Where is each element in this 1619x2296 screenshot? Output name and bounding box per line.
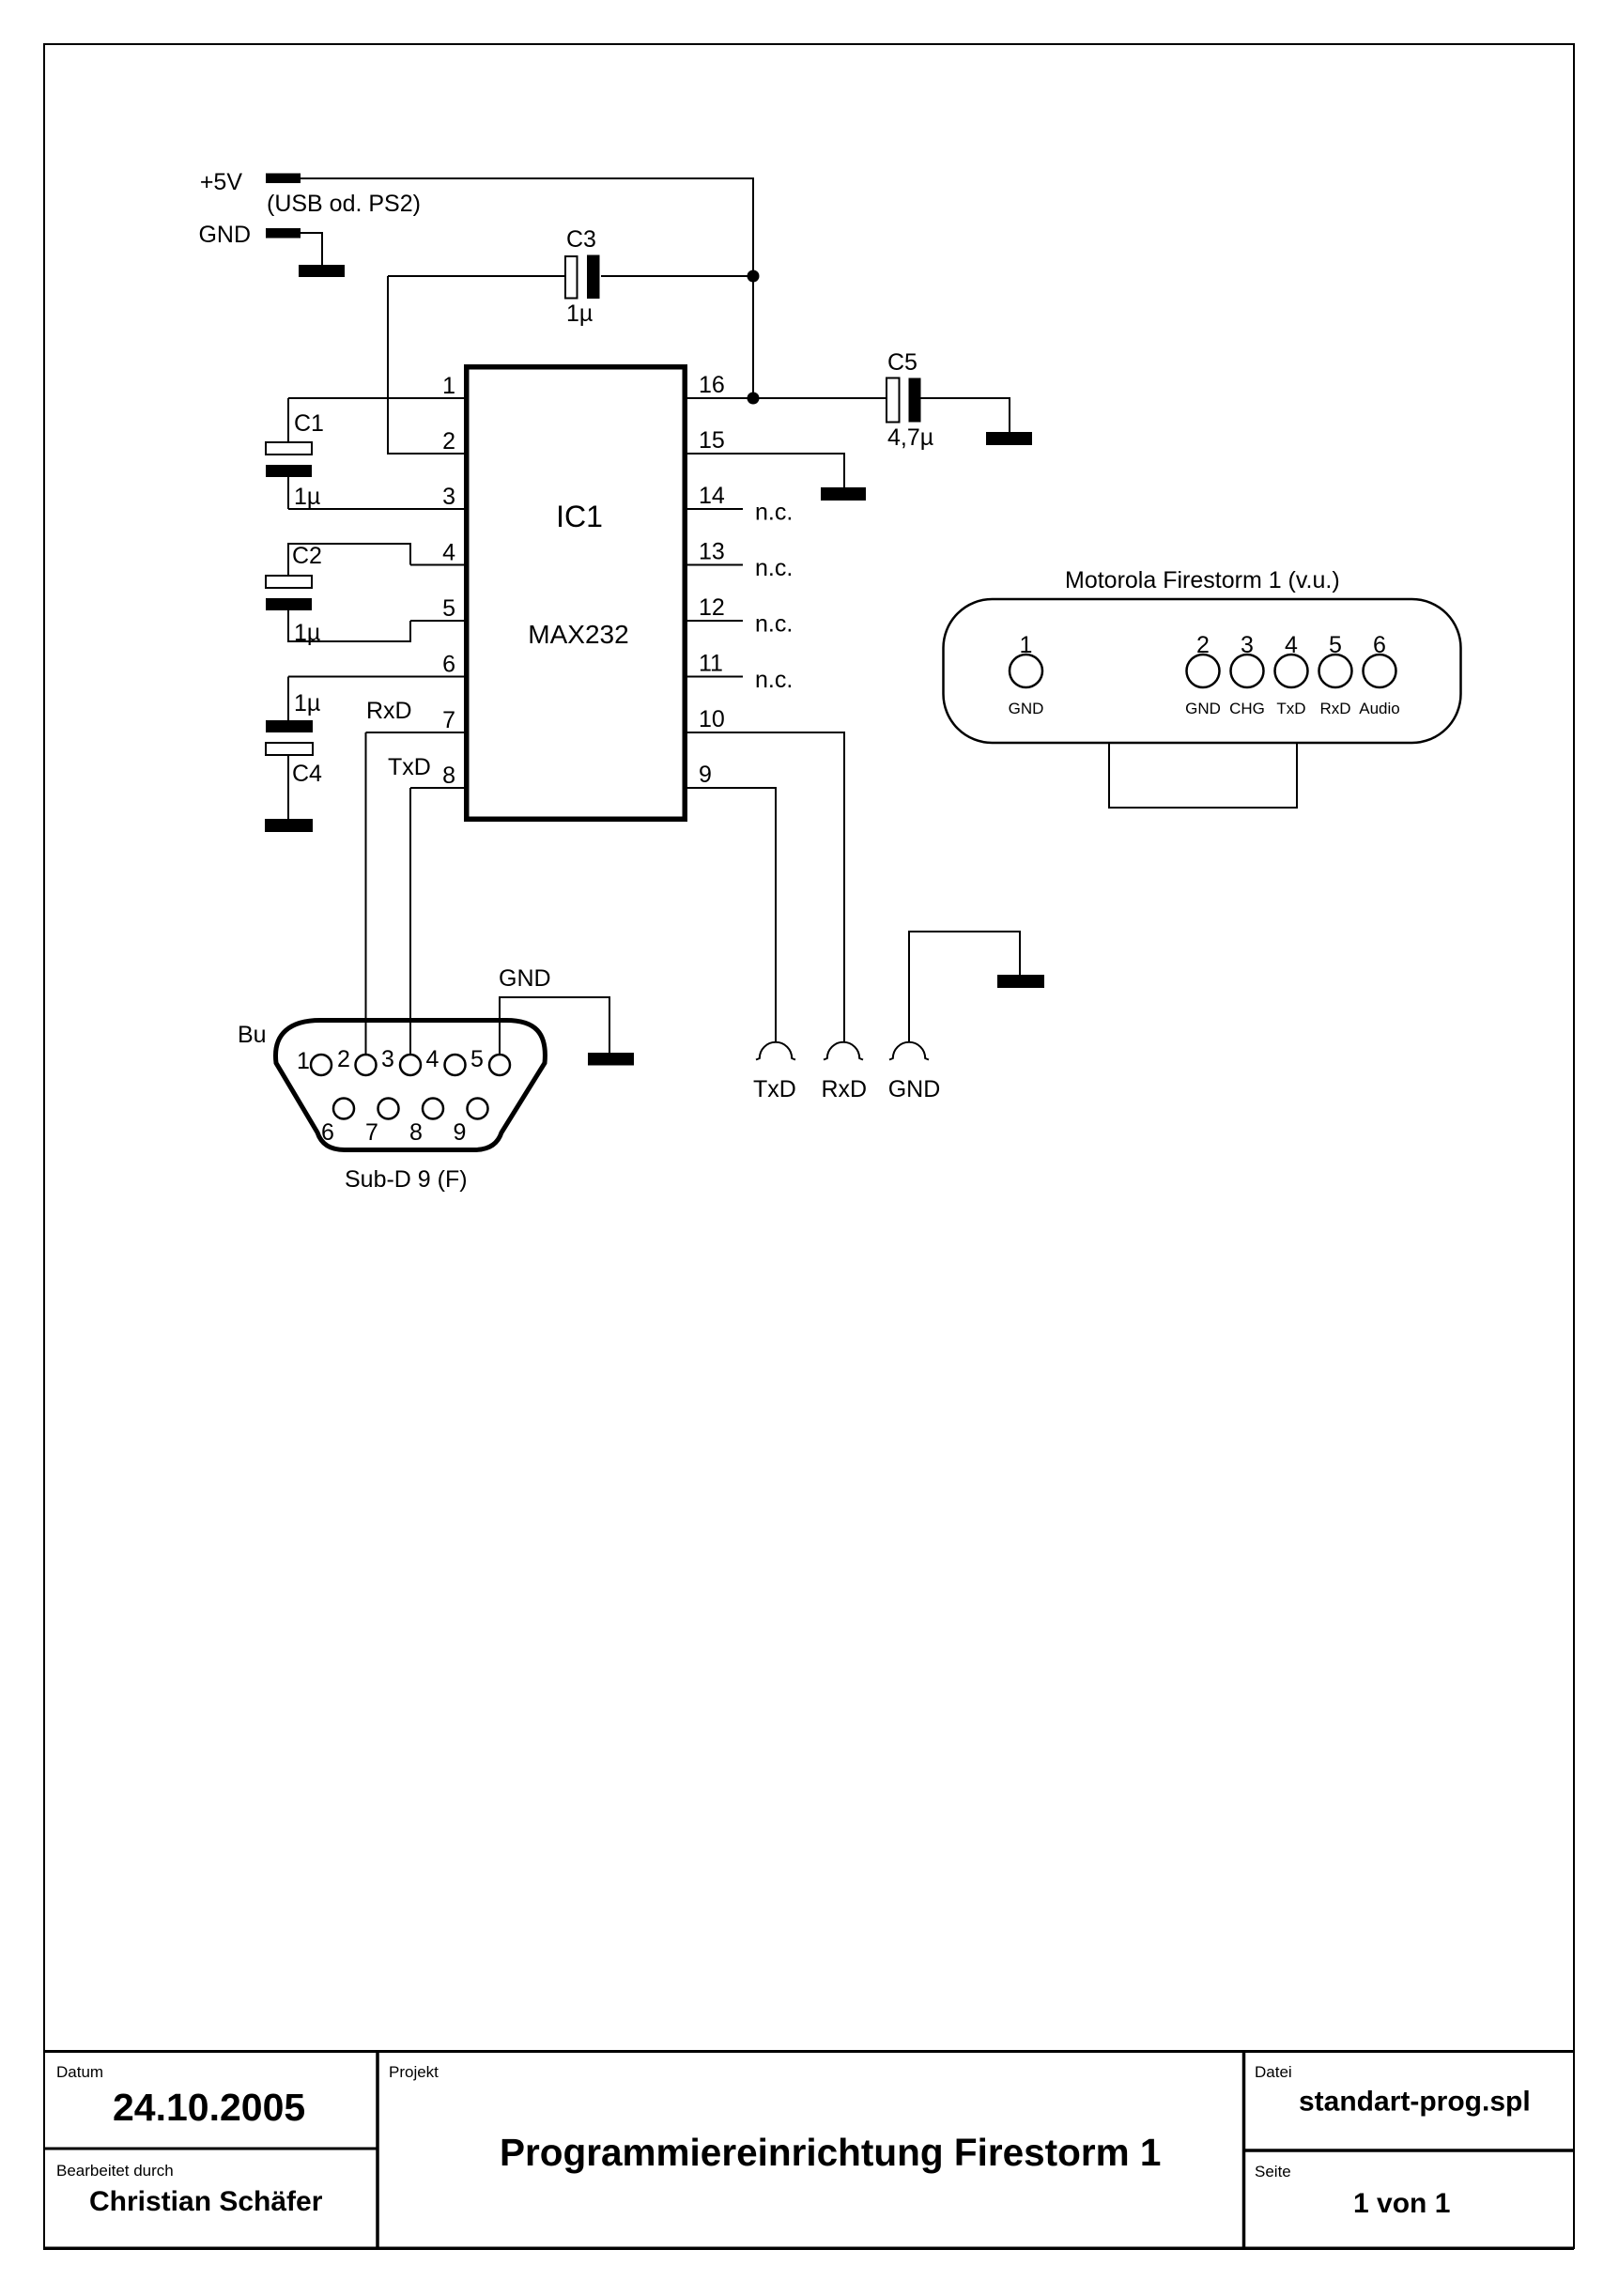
svg-text:C3: C3 bbox=[566, 226, 596, 253]
svg-text:13: 13 bbox=[699, 539, 725, 565]
svg-text:8: 8 bbox=[442, 763, 455, 789]
svg-text:Bearbeitet durch: Bearbeitet durch bbox=[56, 2162, 174, 2180]
svg-text:6: 6 bbox=[442, 652, 455, 678]
svg-text:Programmiereinrichtung Firesto: Programmiereinrichtung Firestorm 1 bbox=[500, 2131, 1161, 2174]
svg-text:CHG: CHG bbox=[1229, 700, 1265, 717]
svg-text:5: 5 bbox=[1329, 632, 1342, 658]
svg-text:GND: GND bbox=[888, 1076, 941, 1102]
svg-text:GND: GND bbox=[499, 965, 551, 992]
svg-text:7: 7 bbox=[442, 707, 455, 733]
svg-text:IC1: IC1 bbox=[556, 500, 603, 533]
svg-text:Sub-D 9 (F): Sub-D 9 (F) bbox=[345, 1166, 468, 1193]
svg-text:Seite: Seite bbox=[1255, 2163, 1291, 2180]
svg-text:3: 3 bbox=[381, 1046, 394, 1072]
svg-text:7: 7 bbox=[365, 1119, 378, 1146]
svg-text:Datum: Datum bbox=[56, 2063, 103, 2081]
svg-text:4: 4 bbox=[442, 540, 455, 566]
svg-text:RxD: RxD bbox=[1319, 700, 1350, 717]
svg-text:2: 2 bbox=[337, 1046, 350, 1072]
svg-text:n.c.: n.c. bbox=[755, 555, 793, 581]
svg-text:Audio: Audio bbox=[1359, 700, 1399, 717]
svg-text:MAX232: MAX232 bbox=[528, 620, 628, 649]
svg-text:1µ: 1µ bbox=[294, 620, 320, 646]
svg-text:+5V: +5V bbox=[200, 169, 243, 195]
svg-text:9: 9 bbox=[454, 1119, 467, 1146]
svg-text:Projekt: Projekt bbox=[389, 2063, 439, 2081]
svg-text:11: 11 bbox=[699, 651, 723, 677]
svg-text:1: 1 bbox=[442, 373, 455, 399]
svg-text:Bu: Bu bbox=[238, 1022, 267, 1048]
svg-text:5: 5 bbox=[442, 595, 455, 622]
svg-text:8: 8 bbox=[409, 1119, 423, 1146]
svg-text:1µ: 1µ bbox=[566, 300, 593, 327]
svg-text:TxD: TxD bbox=[388, 754, 431, 780]
svg-text:Datei: Datei bbox=[1255, 2063, 1292, 2081]
svg-text:TxD: TxD bbox=[753, 1076, 796, 1102]
svg-text:RxD: RxD bbox=[822, 1076, 868, 1102]
svg-text:5: 5 bbox=[470, 1046, 484, 1072]
svg-text:TxD: TxD bbox=[1276, 700, 1305, 717]
svg-text:n.c.: n.c. bbox=[755, 611, 793, 638]
svg-text:10: 10 bbox=[699, 706, 725, 732]
svg-text:Motorola Firestorm 1 (v.u.): Motorola Firestorm 1 (v.u.) bbox=[1065, 567, 1340, 593]
svg-text:(USB od. PS2): (USB od. PS2) bbox=[267, 191, 421, 217]
svg-text:12: 12 bbox=[699, 594, 725, 621]
svg-text:15: 15 bbox=[699, 427, 725, 454]
svg-text:1: 1 bbox=[297, 1048, 310, 1074]
svg-text:C2: C2 bbox=[292, 543, 322, 569]
svg-text:GND: GND bbox=[1185, 700, 1221, 717]
svg-text:3: 3 bbox=[442, 484, 455, 510]
svg-text:C5: C5 bbox=[887, 349, 917, 376]
svg-text:n.c.: n.c. bbox=[755, 667, 793, 693]
svg-text:standart-prog.spl: standart-prog.spl bbox=[1299, 2087, 1531, 2118]
svg-text:C4: C4 bbox=[292, 761, 322, 787]
svg-text:C1: C1 bbox=[294, 410, 324, 437]
svg-text:1µ: 1µ bbox=[294, 690, 320, 717]
svg-text:4,7µ: 4,7µ bbox=[887, 424, 933, 451]
svg-text:n.c.: n.c. bbox=[755, 500, 793, 526]
svg-text:2: 2 bbox=[1196, 632, 1210, 658]
svg-text:1µ: 1µ bbox=[294, 484, 320, 510]
svg-text:3: 3 bbox=[1241, 632, 1254, 658]
svg-text:Christian Schäfer: Christian Schäfer bbox=[89, 2186, 323, 2217]
svg-text:24.10.2005: 24.10.2005 bbox=[113, 2086, 305, 2129]
svg-text:6: 6 bbox=[321, 1119, 334, 1146]
svg-text:GND: GND bbox=[1009, 700, 1044, 717]
svg-text:6: 6 bbox=[1373, 632, 1386, 658]
svg-text:1: 1 bbox=[1020, 632, 1033, 658]
svg-text:2: 2 bbox=[442, 428, 455, 455]
svg-text:4: 4 bbox=[1285, 632, 1298, 658]
svg-text:RxD: RxD bbox=[366, 698, 412, 724]
svg-text:GND: GND bbox=[198, 222, 251, 248]
svg-text:16: 16 bbox=[699, 372, 725, 398]
svg-text:4: 4 bbox=[426, 1046, 439, 1072]
svg-text:9: 9 bbox=[699, 762, 712, 788]
svg-text:1 von 1: 1 von 1 bbox=[1353, 2188, 1450, 2219]
svg-text:14: 14 bbox=[699, 483, 725, 509]
